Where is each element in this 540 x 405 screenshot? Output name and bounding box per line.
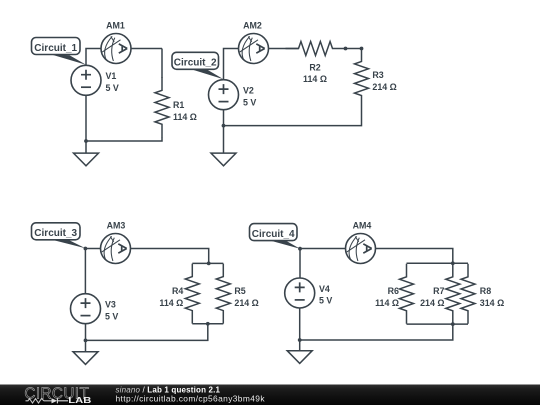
- wire bottom bus R6-R8: [407, 323, 469, 325]
- logo diode: [52, 398, 58, 403]
- resistor R6: [400, 264, 414, 324]
- svg-text:214 Ω: 214 Ω: [420, 298, 444, 308]
- wire node down to V4: [299, 249, 301, 279]
- svg-text:5 V: 5 V: [319, 296, 332, 306]
- wire node to AM3 left: [85, 248, 101, 250]
- wire AM4 right to corner down to parallel bus: [375, 249, 453, 264]
- ground stem circuit4: [299, 340, 301, 351]
- svg-text:R8: R8: [480, 286, 491, 296]
- svg-text:R7: R7: [433, 286, 444, 296]
- node flag Circuit_2: [172, 52, 219, 69]
- svg-text:AM2: AM2: [243, 20, 262, 30]
- wire bottom bus R4-R5: [192, 323, 223, 325]
- footer background bar: [0, 385, 540, 405]
- ammeter AM2: [239, 34, 269, 64]
- junction dot parallel top: [207, 262, 211, 266]
- wire V2 bottom to rail: [223, 110, 225, 126]
- resistor R7: [446, 264, 460, 324]
- svg-text:R3: R3: [372, 70, 383, 80]
- junction dot R3 top: [360, 47, 364, 51]
- junction dot circuit4 top-left node: [298, 247, 302, 251]
- wire AM1 right to top-right corner: [131, 48, 163, 50]
- svg-text:114 Ω: 114 Ω: [173, 112, 197, 122]
- node flag Circuit_2 pointer: [190, 69, 224, 80]
- wire node to AM4 left: [300, 248, 346, 250]
- svg-text:R4: R4: [172, 286, 183, 296]
- wire node down to V3: [84, 249, 86, 295]
- resistor R8: [461, 264, 475, 324]
- svg-text:V1: V1: [106, 71, 117, 81]
- wire V1 top to corner to AM1 left: [86, 49, 102, 67]
- wire V4 bottom to rail: [299, 308, 301, 340]
- wire parallel bottom to bottom rail: [300, 324, 453, 340]
- junction dot circuit4 bottom: [298, 338, 302, 342]
- junction dot circuit1 bottom: [84, 139, 88, 143]
- svg-text:V3: V3: [105, 300, 116, 310]
- ground circuit1: [74, 153, 99, 166]
- ground circuit3: [73, 352, 98, 365]
- svg-text:V4: V4: [319, 284, 330, 294]
- svg-text:R5: R5: [234, 286, 245, 296]
- svg-text:AM1: AM1: [106, 20, 125, 30]
- junction dot parallel top circuit4: [451, 261, 455, 265]
- svg-text:114 Ω: 114 Ω: [375, 298, 399, 308]
- ammeter AM3: [101, 234, 131, 264]
- node flag Circuit_4: [250, 224, 298, 241]
- svg-text:5 V: 5 V: [106, 83, 119, 93]
- resistor R3: [355, 49, 369, 109]
- svg-text:214 Ω: 214 Ω: [372, 82, 396, 92]
- wire corner down to R1: [161, 49, 163, 79]
- junction dot parallel bottom: [206, 322, 210, 326]
- voltage source V2: [209, 80, 239, 110]
- wire top bus R6-R8: [407, 262, 469, 264]
- node flag Circuit_3: [32, 223, 81, 240]
- svg-text:5 V: 5 V: [105, 311, 118, 321]
- svg-text:R6: R6: [388, 286, 399, 296]
- svg-text:V2: V2: [243, 86, 254, 96]
- resistor R2: [286, 42, 346, 56]
- svg-text:R2: R2: [309, 63, 320, 73]
- voltage source V3: [71, 294, 101, 324]
- node flag Circuit_1 pointer: [51, 54, 87, 65]
- voltage source V4: [285, 278, 315, 308]
- svg-text:http://circuitlab.com/cp56any3: http://circuitlab.com/cp56any3bm49k: [116, 393, 266, 403]
- wire top bus R4-R5: [192, 262, 223, 264]
- svg-text:114 Ω: 114 Ω: [159, 298, 183, 308]
- wire V3 bottom to rail: [85, 324, 87, 341]
- resistor R5: [216, 264, 230, 324]
- svg-text:214 Ω: 214 Ω: [234, 298, 258, 308]
- svg-text:Circuit_2: Circuit_2: [174, 58, 217, 69]
- ground stem circuit1: [85, 141, 87, 153]
- voltage source V1: [71, 65, 101, 95]
- junction dot circuit3 top-left node: [84, 247, 88, 251]
- resistor R4: [185, 264, 199, 324]
- node flag Circuit_3 pointer: [51, 239, 86, 248]
- junction dot circuit2 bottom: [222, 124, 226, 128]
- junction dot R2 right: [344, 47, 348, 51]
- resistor R1: [155, 77, 169, 137]
- svg-text:AM4: AM4: [353, 220, 372, 230]
- junction dot parallel bottom circuit4: [451, 322, 455, 326]
- ammeter AM4: [346, 234, 376, 264]
- wire R2 to R3 corner: [346, 48, 362, 50]
- svg-text:5 V: 5 V: [243, 97, 256, 107]
- wire V1 bottom to rail: [85, 95, 87, 141]
- wire parallel bottom to bottom rail: [86, 324, 208, 341]
- wire R1 bottom to bottom rail: [86, 137, 162, 141]
- svg-text:Circuit_1: Circuit_1: [34, 43, 77, 54]
- ground circuit2: [211, 153, 236, 166]
- svg-text:AM3: AM3: [107, 220, 126, 230]
- svg-text:LAB: LAB: [68, 395, 91, 405]
- wire AM3 right to corner down to parallel bus: [130, 249, 209, 264]
- ground circuit4: [287, 351, 312, 364]
- logo resistor zigzag: [26, 399, 52, 403]
- wire R3 bottom to bottom rail: [224, 109, 362, 126]
- svg-text:Circuit_3: Circuit_3: [34, 228, 77, 239]
- ammeter AM1: [101, 34, 131, 64]
- node flag Circuit_1: [32, 38, 81, 55]
- ground stem circuit3: [85, 340, 87, 351]
- node flag Circuit_4 pointer: [269, 240, 301, 249]
- wire V2 top to corner to AM2 left: [224, 49, 240, 81]
- svg-text:114 Ω: 114 Ω: [303, 74, 327, 84]
- svg-text:R1: R1: [173, 100, 184, 110]
- svg-text:Circuit_4: Circuit_4: [252, 229, 295, 240]
- wire AM2 right to R2: [268, 48, 299, 50]
- svg-text:314 Ω: 314 Ω: [480, 298, 504, 308]
- ground stem circuit2: [223, 126, 225, 154]
- junction dot circuit3 bottom: [84, 339, 88, 343]
